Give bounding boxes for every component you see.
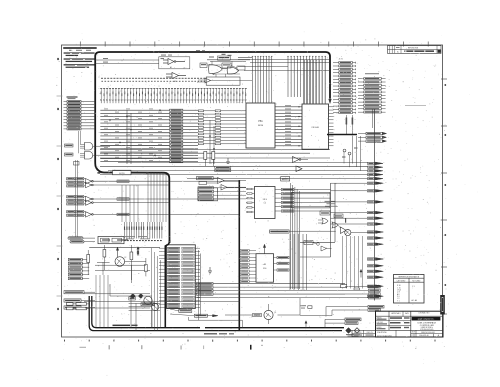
net label [64, 291, 84, 294]
svg-text:050-0011-00: 050-0011-00 [419, 335, 429, 337]
bias network R-C [95, 247, 147, 283]
fold mark [140, 345, 143, 349]
cable stub [327, 134, 357, 136]
edge connector J1 pins upper [64, 100, 96, 130]
svg-text:74LS: 74LS [262, 199, 267, 201]
connector column DM [358, 78, 386, 114]
wire [238, 63, 330, 71]
svg-text:Q2: Q2 [124, 257, 126, 259]
below-IC net labels [170, 309, 218, 317]
wire [238, 59, 330, 61]
resistor row [67, 303, 90, 306]
drawing number edge strip [440, 295, 445, 315]
svg-text:apple computer inc.: apple computer inc. [418, 318, 435, 321]
wire [238, 57, 252, 59]
cable label box [113, 170, 132, 175]
bus line net names [104, 109, 162, 161]
inverter row [86, 179, 170, 218]
connector J1 right column [333, 59, 355, 114]
IC latch A3 [275, 104, 333, 149]
bus junction wires [127, 110, 214, 164]
cable end arrow [329, 99, 332, 104]
side margin zone ticks [57, 58, 448, 314]
data-address bus lines [100, 109, 198, 163]
wire [170, 181, 239, 214]
gnd symbol [226, 158, 230, 163]
top margin zone ticks [80, 42, 428, 47]
bus cable outline [100, 52, 330, 99]
address bus drop B [287, 56, 326, 103]
part number text [125, 236, 150, 239]
cable joint [165, 240, 169, 328]
resistor value labels [101, 78, 205, 82]
comb labels [100, 99, 246, 102]
svg-text:REVISIONS: REVISIONS [408, 48, 419, 50]
svg-text:P5A: P5A [258, 120, 263, 123]
notes text [63, 47, 96, 68]
read amp cluster [129, 296, 160, 331]
write gate cluster [304, 241, 332, 252]
wire [225, 314, 253, 316]
LED indicator cluster [110, 284, 155, 306]
border frame [62, 45, 443, 337]
wire drops to combs [122, 172, 166, 222]
wire pair [74, 160, 80, 237]
sequencer bus labels [197, 283, 346, 296]
crystal oscillator Y1 [98, 237, 128, 244]
decoder gate cluster [198, 63, 252, 83]
svg-text:NOT USED: NOT USED [412, 280, 421, 282]
pullup resistor comb RP1 [100, 88, 247, 103]
legend diamond [346, 328, 352, 334]
label box [281, 177, 290, 181]
fold mark [202, 346, 205, 350]
resistor divider cluster [204, 152, 231, 172]
wire [197, 297, 346, 299]
interface net labels [325, 318, 361, 328]
resistors R10 R11 [346, 115, 354, 134]
svg-text:Q1: Q1 [274, 312, 276, 314]
resistors R20 R21 [341, 269, 363, 290]
gnd symbol [208, 267, 212, 274]
IC timer A3 556 [240, 249, 289, 282]
interconnect wires [100, 150, 368, 179]
svg-text:CONTROLLER: CONTROLLER [420, 325, 435, 327]
net labels [117, 180, 129, 216]
svg-text:SIZE: SIZE [412, 332, 415, 334]
timing resistor combs [124, 222, 163, 239]
connector header [67, 96, 78, 97]
svg-text:DWG NO 050-0011: DWG NO 050-0011 [421, 332, 435, 334]
AND gates A4 [65, 131, 111, 159]
wires below sequencer [152, 248, 243, 331]
bus cable outline bottom [96, 168, 170, 244]
bus receiver arrows [368, 162, 383, 180]
fold mark [108, 345, 111, 349]
label cable [204, 333, 217, 334]
left connector row [67, 196, 86, 206]
svg-text:J1 I/O: J1 I/O [339, 59, 344, 61]
IC sequencer P6A [159, 245, 200, 309]
left connector row [67, 178, 86, 188]
disk drive connector J2 [365, 73, 383, 300]
svg-text:(P/N 050-0011-00): (P/N 050-0011-00) [420, 329, 434, 331]
svg-text:DISK ii INTERFACE: DISK ii INTERFACE [418, 321, 437, 324]
svg-text:ROM: ROM [258, 125, 263, 127]
application block [352, 330, 376, 336]
svg-text:A1: A1 [170, 66, 172, 69]
IC write logic C2 [246, 187, 331, 219]
reference designation table [394, 275, 425, 304]
svg-text:Y 1: Y 1 [397, 300, 400, 302]
label 556 top [270, 230, 336, 233]
svg-text:USED ON: USED ON [367, 332, 373, 334]
power net labels [300, 305, 384, 315]
wire drops right [343, 236, 363, 289]
IC ROM P5A [246, 103, 275, 148]
resistor row [67, 307, 90, 310]
net label [64, 306, 81, 309]
transistor pair Q3 Q4 [342, 148, 358, 168]
net label [64, 299, 81, 302]
fold mark [250, 345, 252, 350]
power arrow [263, 244, 265, 253]
long net wires [84, 294, 240, 308]
analog driver Q2 [87, 245, 160, 280]
vertical wires bundle [291, 183, 300, 289]
ROM pin number labels [198, 110, 246, 145]
left connector row [67, 211, 86, 217]
address bus drop A [252, 56, 273, 102]
label MOTHER BOARD [113, 325, 131, 327]
net label ovals [68, 237, 95, 243]
disk power labels [345, 285, 380, 299]
fold mark [80, 346, 87, 349]
Q1 bias labels [301, 305, 313, 327]
svg-text:A4 - A6: A4 - A6 [412, 299, 418, 302]
power connector J3 [68, 258, 89, 279]
transistor Q1 [253, 304, 277, 324]
comb value labels [124, 240, 162, 241]
flip-flop cluster [196, 50, 250, 85]
signal arrows group [358, 132, 387, 142]
svg-text:USED W/ DISK ii: USED W/ DISK ii [421, 327, 434, 329]
wire [353, 136, 361, 171]
vertical drops [290, 234, 307, 290]
gate U-A1 [95, 55, 190, 69]
title block [376, 311, 444, 337]
fold mark [262, 345, 263, 346]
wires to connector [331, 183, 368, 224]
gate U-A2 [166, 73, 186, 84]
svg-text:74LS A3: 74LS A3 [311, 126, 319, 129]
junction dots [109, 109, 215, 156]
wire loop [292, 192, 331, 208]
wire [278, 314, 301, 316]
fold mark [180, 346, 183, 350]
bus cable outline left [95, 52, 100, 168]
cable line bottom pair [89, 296, 344, 331]
buffer gates [293, 157, 309, 172]
revision block [388, 46, 442, 54]
net label rows [198, 187, 246, 201]
svg-text:C2: C2 [263, 203, 265, 205]
data bus drop C [305, 60, 326, 104]
shift-load gates [197, 176, 246, 190]
wire pair right [300, 183, 335, 257]
bottom margin zone ticks [64, 340, 436, 342]
XOR write gates [318, 201, 375, 236]
wire drops [96, 275, 108, 328]
cable line [238, 180, 240, 331]
